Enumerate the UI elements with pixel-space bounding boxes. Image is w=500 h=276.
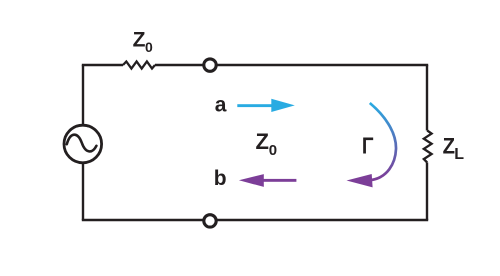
svg-text:L: L <box>454 146 464 163</box>
svg-text:Z: Z <box>133 29 146 52</box>
svg-text:a: a <box>215 93 227 116</box>
svg-text:0: 0 <box>145 39 153 55</box>
svg-text:b: b <box>214 167 227 190</box>
svg-text:Z: Z <box>256 129 269 154</box>
svg-text:Γ: Γ <box>362 134 374 159</box>
svg-text:0: 0 <box>269 142 277 159</box>
svg-text:Z: Z <box>443 135 455 159</box>
